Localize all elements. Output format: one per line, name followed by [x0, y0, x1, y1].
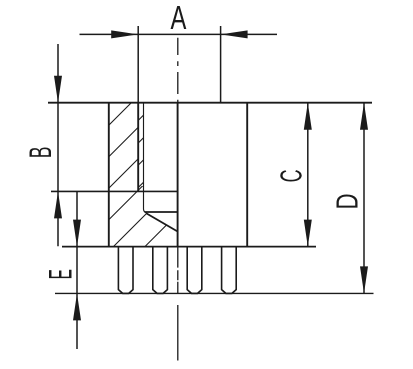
- pin 2: [153, 247, 168, 294]
- dimension D arrow bottom: [360, 266, 368, 293]
- pin 4: [222, 247, 237, 294]
- svg-text:C: C: [275, 169, 309, 182]
- centerline (dash-dot axis), upper part: [177, 38, 179, 103]
- chamfer edge: [146, 213, 178, 231]
- dimension C arrow bottom: [304, 220, 312, 247]
- hatching section lines (housing): [0, 103, 289, 247]
- pin tip line (with E/D extension overhangs): [55, 292, 374, 294]
- dimension E arrow bottom: [73, 293, 81, 320]
- bore wall edge: [137, 103, 139, 192]
- svg-text:D: D: [330, 193, 364, 209]
- bore floor line (with B/E extension overhang): [51, 190, 178, 192]
- step line: [145, 211, 178, 213]
- dimension B arrow top: [54, 76, 62, 103]
- body right edge: [246, 103, 248, 247]
- centerline (dash-dot axis), lower part: [177, 247, 179, 361]
- pin 1: [118, 247, 133, 294]
- dimension A arrow right: [221, 30, 248, 38]
- dimension E arrow top: [73, 220, 81, 247]
- center section edge: [177, 103, 179, 247]
- svg-text:B: B: [24, 147, 59, 159]
- dimension A arrow left: [111, 30, 138, 38]
- pin 3: [187, 247, 202, 294]
- dimension A extension line right: [220, 26, 222, 103]
- dimension B line: [57, 44, 59, 246]
- hatching section lines (sleeve insert): [12, 103, 223, 247]
- svg-text:A: A: [170, 0, 186, 37]
- dimension D arrow top: [360, 103, 368, 130]
- dimension B arrow bottom: [54, 191, 62, 218]
- sleeve line with corner radius: [144, 103, 147, 213]
- dimension C line: [307, 103, 309, 247]
- body left edge: [108, 103, 110, 247]
- dimension E line: [76, 191, 78, 349]
- dimension D line: [363, 103, 365, 294]
- dimension C arrow top: [304, 103, 312, 130]
- body bottom line (with E/C extension overhangs): [62, 246, 316, 248]
- body top line (with B/C/D extension overhangs): [48, 102, 372, 104]
- dimension A line: [80, 33, 278, 35]
- svg-text:E: E: [43, 269, 79, 279]
- dimension A extension line left: [137, 26, 139, 103]
